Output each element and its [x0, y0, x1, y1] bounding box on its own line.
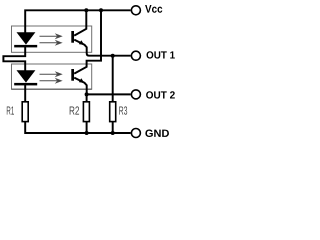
LED D2: [14, 70, 37, 85]
wire R2 to GND: [86, 122, 88, 133]
terminal OUT 1: [131, 51, 140, 60]
terminal GND: [131, 129, 140, 138]
wire LED1 cathode jog to LED2 anode: [3, 46, 25, 72]
wire OUT1 node to R3: [112, 56, 114, 102]
transistor Q2 base bar: [71, 69, 74, 81]
wire emitter Q1 to OUT 1: [74, 40, 130, 56]
label R2: [70, 106, 79, 114]
wire emitter Q2 to OUT 2: [74, 78, 130, 95]
wire collector Q1 riser: [74, 10, 86, 35]
transistor Q1 emitter arrowhead: [79, 40, 85, 45]
light arrows U2: [40, 72, 62, 82]
label R1: [7, 106, 14, 114]
optocoupler U2 bottom edge accent: [12, 88, 92, 90]
optocoupler U2 package outline: [12, 64, 92, 89]
label OUT 1: [147, 51, 175, 58]
terminal OUT 2: [131, 90, 140, 99]
junction node OUT1/R3: [111, 54, 115, 58]
LED D1: [14, 32, 37, 47]
wire Vcc rail with LED1 anode riser: [25, 10, 130, 33]
junction node GND/R2: [85, 131, 89, 135]
transistor Q2 emitter arrowhead: [79, 78, 85, 83]
optocoupler U1 package outline: [12, 26, 92, 52]
wire LED2 cathode to R1: [24, 85, 26, 102]
wire R1 to GND rail: [25, 122, 130, 133]
label Vcc: [145, 5, 162, 13]
junction node GND/R3: [111, 131, 115, 135]
wire OUT2 node to R2: [86, 94, 88, 101]
junction node Vcc/collector Q1: [84, 8, 88, 12]
label GND: [145, 130, 169, 138]
junction node OUT2/R2: [85, 92, 89, 96]
resistor R1: [22, 102, 28, 122]
wire collector Q2 riser from Vcc: [74, 10, 101, 73]
resistor R2: [83, 102, 89, 122]
transistor Q1 base bar: [71, 31, 74, 43]
label R3: [119, 106, 127, 114]
terminal Vcc: [131, 6, 140, 15]
junction node Vcc/collector Q2: [99, 8, 103, 12]
light arrows U1: [40, 34, 62, 44]
wire R3 to GND: [112, 122, 114, 133]
label OUT 2: [146, 91, 175, 98]
resistor R3: [110, 102, 116, 122]
